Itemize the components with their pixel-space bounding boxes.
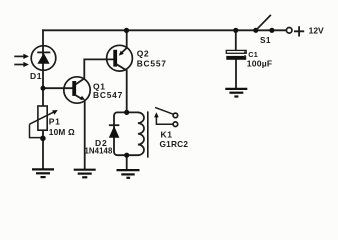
svg-text:S1: S1 [260, 35, 271, 45]
svg-text:1N4148: 1N4148 [85, 146, 113, 155]
svg-text:BC547: BC547 [93, 90, 123, 100]
svg-text:G1RC2: G1RC2 [160, 139, 189, 149]
svg-text:P1: P1 [49, 116, 61, 126]
svg-text:12V: 12V [309, 26, 324, 36]
svg-text:D1: D1 [30, 71, 42, 81]
svg-text:10M Ω: 10M Ω [49, 127, 75, 137]
svg-text:Q2: Q2 [137, 49, 150, 59]
svg-text:BC557: BC557 [137, 58, 167, 68]
svg-text:100µF: 100µF [247, 58, 273, 68]
